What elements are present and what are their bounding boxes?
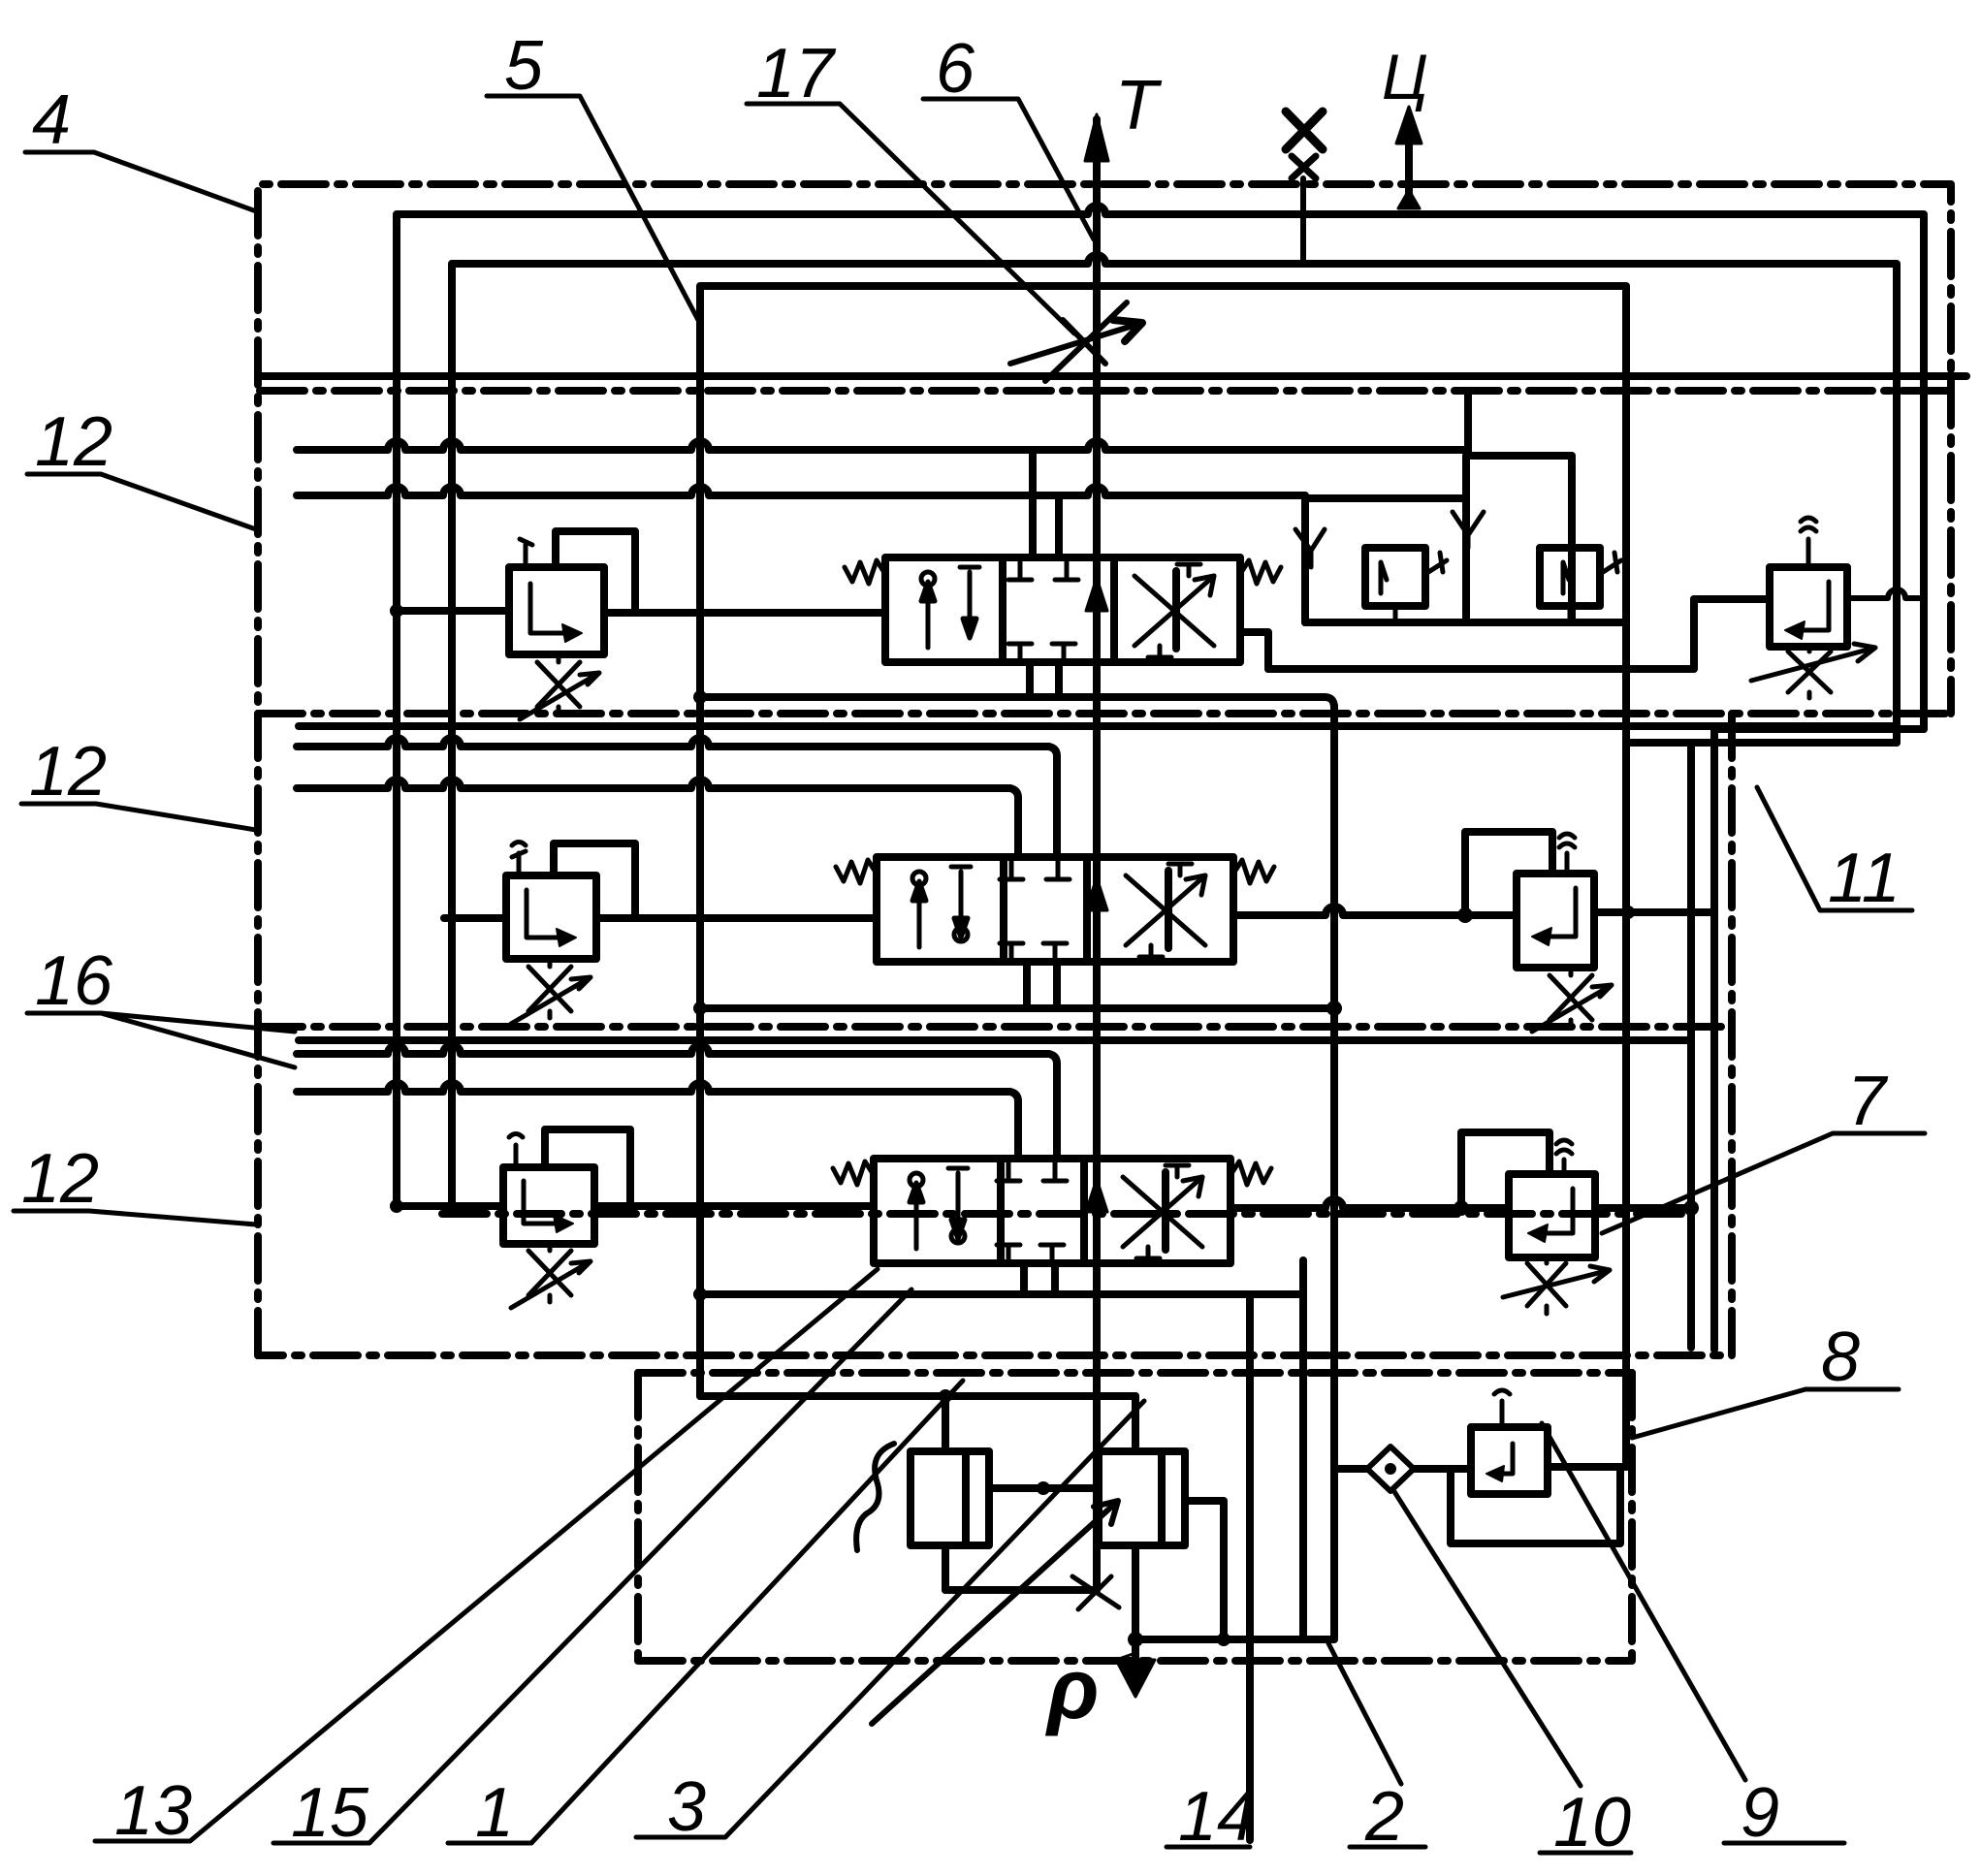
relief check mark 2 <box>1453 512 1484 548</box>
divider section1/2 dash-dot <box>258 710 1951 717</box>
pump supply line from block <box>700 1392 1135 1400</box>
svg-text:5: 5 <box>504 27 544 105</box>
pilot R2 top spring <box>1559 834 1575 874</box>
valve V2 centre ports T-marks <box>1000 860 1070 961</box>
port C line <box>1405 143 1413 206</box>
check valve 10 diamond <box>1367 1447 1414 1491</box>
tank line T vertical <box>1093 119 1101 1590</box>
junction <box>1037 1481 1050 1495</box>
valve V1 top stubs <box>1033 452 1059 557</box>
pilot R3 top spring <box>1556 1140 1572 1174</box>
svg-text:13: 13 <box>114 1772 192 1850</box>
valve V1 bottom stubs <box>1030 662 1059 697</box>
orifice 17 symbol on T line <box>1010 302 1142 381</box>
pump right loop <box>1185 1501 1224 1639</box>
X symbol drop line <box>1300 178 1306 264</box>
svg-text:12: 12 <box>29 733 107 811</box>
wire from bus to pilot L1 <box>397 607 509 615</box>
pump section dash-dot frame <box>638 1373 1632 1661</box>
pilot R3 feedback loop <box>1461 1132 1550 1208</box>
pilot L3 throttle <box>511 1244 591 1308</box>
pilot R3 box <box>1509 1174 1595 1257</box>
relief cluster bottom line <box>1305 619 1626 626</box>
valve V1 right bottom step <box>1240 632 1268 669</box>
pilot R2 feedback loop <box>1465 832 1552 915</box>
tank line T arrowhead <box>1085 114 1108 161</box>
valve V1 section dividers <box>1003 557 1176 662</box>
port C arrow up <box>1396 107 1422 143</box>
wire valve V2 to pilot R2 <box>1233 906 1517 915</box>
valve V1 right spring <box>1240 560 1281 584</box>
junction <box>1683 1200 1699 1216</box>
valve V1 left section check symbols <box>921 567 979 648</box>
junction <box>1326 1001 1342 1016</box>
pilot R2 box <box>1517 874 1594 968</box>
pump variable arrow <box>872 1501 1118 1724</box>
relief check mark 1 <box>1295 529 1325 567</box>
relief cluster feed stub <box>1464 392 1472 456</box>
pilot L2 internal arrow <box>527 890 566 938</box>
svg-text:2: 2 <box>1364 1778 1404 1856</box>
frame B solid enclosure <box>452 255 1897 1206</box>
wire pilot L3 to valve V3 <box>594 1202 874 1210</box>
valve V3 right spring <box>1230 1161 1271 1185</box>
svg-text:6: 6 <box>936 30 975 108</box>
valve 8 internal <box>1496 1444 1513 1474</box>
wire pilot L1 to valve V1 <box>604 609 885 617</box>
valve V2 T-line arrow <box>1086 877 1107 910</box>
pilot L3 feedback loop <box>545 1129 630 1206</box>
junction <box>939 1389 952 1403</box>
junction <box>1621 906 1635 919</box>
line check valve to valve 8 <box>1414 1465 1471 1473</box>
svg-text:8: 8 <box>1821 1319 1860 1396</box>
valve V1 centre ports T-marks <box>1008 560 1078 661</box>
wire from bus to pilot L3 <box>397 1202 503 1210</box>
svg-text:16: 16 <box>35 942 113 1020</box>
valve V3 section dividers <box>1001 1159 1166 1263</box>
wire from bus to pilot L2 <box>444 914 506 922</box>
pilot L1 internal arrow <box>530 584 572 633</box>
pump regulator box piston edge <box>962 1451 970 1545</box>
valve V1 bottom port line <box>700 697 1334 708</box>
valve V3 left section check symbols <box>910 1168 968 1249</box>
valve 8 box <box>1471 1427 1548 1494</box>
svg-text:17: 17 <box>756 35 837 112</box>
line 14 vertical <box>1246 1294 1254 1840</box>
valve V1 right section cross arrows <box>1134 564 1214 657</box>
junction <box>693 1288 707 1301</box>
pilot R1 internal arrow <box>1795 582 1829 630</box>
pilot R1 box <box>1770 567 1847 647</box>
svg-text:7: 7 <box>1847 1063 1889 1140</box>
wire pilot R3 right <box>1595 1204 1691 1212</box>
pilot L2 top stub <box>512 843 526 876</box>
pilot R3 internal arrow <box>1538 1189 1573 1233</box>
svg-text:14: 14 <box>1178 1778 1256 1856</box>
junction <box>693 1002 707 1015</box>
port X symbol <box>1286 111 1323 178</box>
pump main box piston edge <box>1158 1451 1166 1545</box>
port P arrow <box>1116 1653 1155 1697</box>
relief valve box 2 stub <box>1568 606 1573 622</box>
valve 8 top stub <box>1494 1390 1510 1427</box>
wire valve V3 to pilot R3 <box>1230 1199 1509 1208</box>
wire to pilot R1 <box>1694 595 1770 603</box>
pump main box <box>1099 1451 1185 1545</box>
valve V2 right section cross arrows <box>1126 864 1205 957</box>
drain bus vertical (right of valves) <box>1622 286 1630 1467</box>
pilot L1 top stub <box>520 539 532 567</box>
valve V3 centre ports T-marks <box>997 1161 1067 1262</box>
row3 lower dash-dot line <box>442 1210 1687 1218</box>
divider section1/2 solid <box>299 722 1897 730</box>
valve V2 right spring <box>1233 860 1274 883</box>
junction <box>390 604 403 618</box>
pump pressure line P <box>1135 1636 1334 1643</box>
pump regulator box <box>911 1451 989 1545</box>
relief valve box 1 adj arrow <box>1425 553 1447 574</box>
pump regulator top stub <box>942 1396 949 1451</box>
relief valve box 2 poppet <box>1563 562 1569 593</box>
pilot R2 internal arrow <box>1542 888 1576 937</box>
junction <box>1217 1633 1230 1646</box>
port line row2 lower <box>297 779 1018 857</box>
svg-text:15: 15 <box>291 1774 369 1852</box>
line under row1 to right pilot <box>1268 599 1694 669</box>
check valve 10 ball <box>1385 1463 1396 1475</box>
pilot L1 feedback loop <box>556 531 635 609</box>
valve V3 left spring <box>833 1161 874 1185</box>
relief valve box 1 <box>1365 548 1425 606</box>
pilot L1 throttle <box>520 654 599 719</box>
junction <box>1128 1632 1143 1647</box>
divider section2/3 dash-dot <box>258 1023 1732 1031</box>
pilot L1 box <box>509 567 604 654</box>
wire pilot R1 right <box>1847 589 1924 598</box>
relief cluster cell 1 <box>1305 498 1466 622</box>
pilot R1 top stub <box>1801 518 1816 567</box>
svg-text:11: 11 <box>1828 840 1901 917</box>
port C foot <box>1398 190 1420 208</box>
valve V2 bottom port line <box>700 1004 1334 1012</box>
valve V3 bottom stubs <box>1024 1263 1055 1294</box>
pump regulator squiggle <box>856 1444 894 1550</box>
port line row3 lower <box>297 1083 1018 1159</box>
pilot L3 top stub <box>509 1134 523 1168</box>
frame 4 outer dash-dot enclosure <box>258 184 1951 1355</box>
valve V2 left section check symbols <box>912 867 971 947</box>
port line row1 lower <box>297 487 1305 495</box>
pump regulator bottom stub <box>942 1545 949 1590</box>
svg-text:12: 12 <box>21 1140 99 1218</box>
svg-text:ρ: ρ <box>1044 1640 1099 1736</box>
pilot L3 box <box>503 1167 594 1244</box>
valve V3 T-line arrow <box>1086 1179 1107 1212</box>
junction <box>1454 1200 1469 1216</box>
pilot L3 internal arrow <box>524 1181 563 1224</box>
pilot L2 throttle <box>511 959 591 1024</box>
junction <box>1457 907 1473 923</box>
frame A solid enclosure <box>397 206 1924 1206</box>
valve V3 bottom port line <box>697 1290 1303 1298</box>
pump right feed corner <box>1132 1396 1139 1451</box>
relief valve box 2 <box>1540 548 1600 606</box>
svg-text:1: 1 <box>475 1774 514 1852</box>
valve V1 T-line arrow <box>1086 578 1107 611</box>
svg-text:9: 9 <box>1741 1774 1779 1852</box>
relief cluster cell 2 <box>1466 456 1572 622</box>
drain vertical to pump line <box>1299 1260 1307 1639</box>
divider section2/3 solid <box>299 1036 1691 1044</box>
pilot R2 throttle <box>1532 968 1612 1032</box>
svg-text:3: 3 <box>667 1768 706 1846</box>
wire pilot R2 right <box>1594 908 1714 916</box>
junction <box>390 1199 403 1213</box>
pilot supply vertical <box>1330 706 1338 1638</box>
valve V1 body <box>885 557 1240 662</box>
pilot R1 throttle <box>1751 644 1875 698</box>
valve V2 section dividers <box>1004 857 1168 962</box>
section 1 top boundary dash-dot <box>260 387 1951 395</box>
relief valve box 2 adj arrow <box>1600 553 1621 574</box>
port line row2 upper <box>297 738 1057 857</box>
valve V1 left spring <box>845 560 885 584</box>
pilot L2 box <box>506 875 596 959</box>
bottom boundary dash-dot of sections (drawn in frame4) second pump-top dash-dot <box>638 1369 1632 1377</box>
valve V2 left spring <box>836 860 877 883</box>
relief valve box 1 stub <box>1393 606 1398 622</box>
frame 5 inner block boundary <box>700 286 1625 1396</box>
valve 8 drain loop <box>1451 1467 1620 1543</box>
svg-text:10: 10 <box>1553 1784 1631 1861</box>
valve V3 body <box>874 1159 1230 1263</box>
pilot L2 feedback loop <box>554 843 635 918</box>
svg-text:Ц: Ц <box>1382 41 1428 112</box>
pump interconnect line <box>989 1484 1099 1492</box>
port line row3 upper <box>297 1045 1057 1159</box>
relief valve box 1 poppet <box>1381 562 1387 593</box>
pump drain loop to T <box>945 1586 1097 1594</box>
svg-text:12: 12 <box>35 403 112 481</box>
pilot R3 throttle <box>1503 1257 1610 1314</box>
svg-text:T: T <box>1115 67 1163 144</box>
svg-text:4: 4 <box>32 81 71 159</box>
wire valve 8 to drain <box>1548 1463 1626 1471</box>
port line row1 upper <box>297 441 1466 450</box>
pump loop cross tick <box>1072 1576 1119 1609</box>
valve V3 right section cross arrows <box>1123 1165 1202 1258</box>
check valve 10 feed line <box>1334 1465 1367 1473</box>
wire pilot L2 to valve V2 <box>596 914 877 922</box>
junction <box>693 690 707 704</box>
valve V2 bottom stubs <box>1027 962 1057 1008</box>
valve V2 body <box>877 857 1233 962</box>
section 1 top boundary solid <box>260 372 1966 380</box>
pump outlet vertical <box>1132 1545 1139 1660</box>
